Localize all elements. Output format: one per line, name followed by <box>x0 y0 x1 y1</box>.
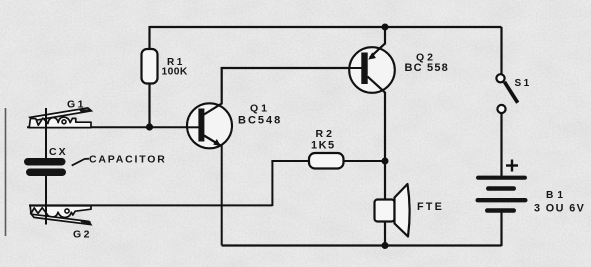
speaker FTE coil box <box>375 200 395 222</box>
clip G2 rivet <box>65 209 69 213</box>
wire: R2 right lead <box>344 160 386 162</box>
svg-text:100K: 100K <box>162 67 188 78</box>
node: bottom rail junction <box>382 242 389 249</box>
wire: speaker top lead <box>384 161 386 200</box>
battery B1 plate 1 long <box>476 176 527 180</box>
battery B1 plate 2 short <box>486 186 516 191</box>
switch S1 top contact <box>496 74 504 82</box>
wire: Q2 collector down to speaker node <box>384 92 386 161</box>
alligator clip G1 handle <box>30 108 91 121</box>
svg-text:B1: B1 <box>546 190 567 201</box>
wire: capacitor bottom lead through G2 <box>45 176 47 225</box>
Q2 base bar <box>361 53 367 85</box>
svg-text:1K5: 1K5 <box>311 140 336 152</box>
battery B1 plate 3 long <box>476 198 528 202</box>
wire: speaker bottom lead <box>384 222 386 246</box>
node: junction R1/base wire <box>146 123 153 130</box>
switch S1 lever <box>504 82 517 103</box>
capacitor CX top plate <box>24 158 66 166</box>
Q1 emitter arrowhead <box>213 139 221 146</box>
svg-text:BC548: BC548 <box>238 115 282 127</box>
Q2 emitter arrowhead <box>368 52 376 59</box>
Q1 emitter line <box>204 136 221 146</box>
wire: right rail top to switch <box>500 27 502 74</box>
Q1 base bar <box>198 109 204 142</box>
clip G2 handle tip shade <box>80 220 91 225</box>
svg-text:G1: G1 <box>67 99 86 111</box>
wire: top supply rail <box>150 26 502 28</box>
Q1 base wire inside <box>187 126 199 128</box>
battery B1 plate 4 short <box>485 208 516 213</box>
Q1 collector line <box>204 68 222 115</box>
resistor R2 body <box>309 153 344 169</box>
wire: R2 left lead <box>271 160 309 162</box>
switch S1 bottom contact <box>497 105 505 113</box>
node: R2/speaker junction <box>382 158 389 165</box>
svg-text:CAPACITOR: CAPACITOR <box>89 153 167 165</box>
wire: battery to bottom rail <box>500 213 502 247</box>
wire: capacitor top lead through G1 <box>45 108 47 158</box>
svg-text:BC 558: BC 558 <box>405 62 450 74</box>
clip G1 rivet <box>62 120 66 124</box>
Q2 base wire inside <box>349 67 362 69</box>
wire: Q1 collector to Q2 base <box>221 67 362 69</box>
alligator clip G2 handle <box>31 214 90 224</box>
svg-text:G2: G2 <box>73 228 92 240</box>
svg-text:S1: S1 <box>515 78 532 89</box>
Q2 emitter line <box>370 44 385 58</box>
capacitor CX bottom plate <box>26 169 66 177</box>
wire: switch to battery <box>500 113 502 177</box>
svg-text:Q1: Q1 <box>250 103 270 115</box>
wire: G1 to Q1 base <box>27 126 199 128</box>
wire: Q1 emitter down to bottom rail <box>221 146 223 246</box>
svg-text:FTE: FTE <box>417 201 444 213</box>
clip G1 handle tip shade <box>79 109 91 112</box>
left figure border remnant <box>5 108 7 236</box>
pointer line to capacitor <box>72 159 89 166</box>
svg-text:CX: CX <box>49 146 68 158</box>
transistor Q2 body circle <box>349 47 395 93</box>
wire: Q2 emitter up to top rail <box>384 27 386 45</box>
alligator clip G1 jaw <box>29 117 91 128</box>
node: top rail junction <box>382 24 389 31</box>
resistor R1 body <box>142 49 158 84</box>
wire: R2 branch vertical from G2 line <box>271 161 273 206</box>
wire: R1 top lead <box>148 26 150 50</box>
battery B1 plus sign <box>506 160 518 172</box>
transistor Q1 body circle <box>187 103 232 148</box>
wire: G2 lead to R2 branch <box>29 204 272 206</box>
speaker FTE cone <box>395 184 410 237</box>
wire: R1 bottom lead <box>148 84 150 128</box>
Q2 collector line <box>368 77 386 94</box>
svg-text:R2: R2 <box>316 128 335 140</box>
alligator clip G2 jaw <box>30 206 91 218</box>
wire: bottom rail <box>222 244 502 246</box>
svg-text:3 OU 6V: 3 OU 6V <box>534 203 585 215</box>
